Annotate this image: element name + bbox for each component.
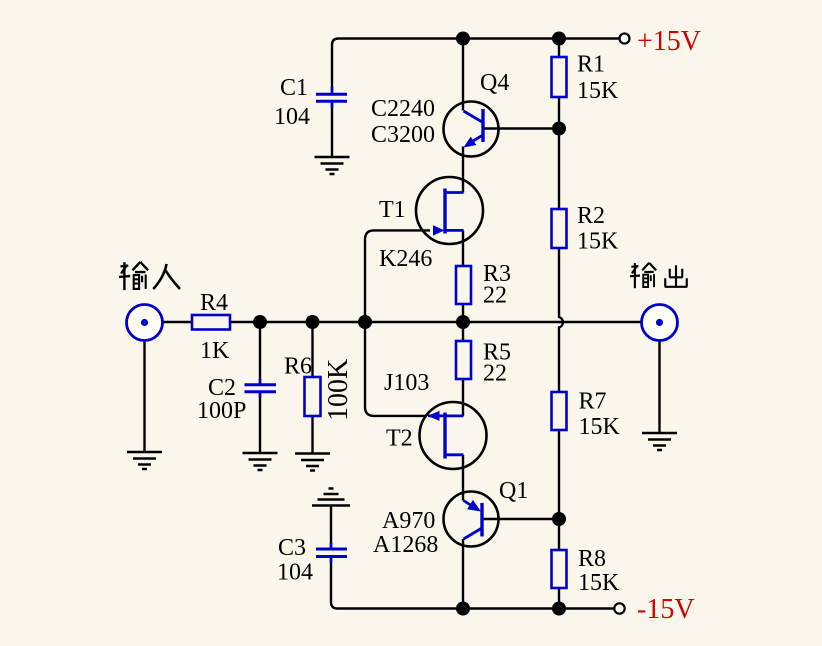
wire T1 gate riser T2 gate — [365, 230, 430, 416]
svg-text:Q4: Q4 — [480, 70, 509, 96]
resistor R7 — [552, 392, 567, 430]
svg-text:22: 22 — [483, 282, 507, 308]
wire R1 to R2 — [558, 97, 560, 209]
wire node to C2 — [259, 322, 261, 380]
svg-text:15K: 15K — [578, 570, 620, 596]
resistor R4 — [192, 315, 230, 330]
wire bottom -15V rail — [331, 563, 615, 609]
svg-text:R6: R6 — [284, 354, 312, 380]
wire T1 source to R3 — [462, 230, 464, 266]
terminal -15V — [614, 603, 624, 613]
ground input — [127, 452, 162, 469]
terminal +15V — [620, 34, 630, 44]
RESISTORS — [192, 57, 567, 588]
GROUNDS — [127, 157, 677, 506]
node Q1 base / R7 R8 — [552, 512, 566, 526]
svg-text:15K: 15K — [577, 228, 619, 254]
wire Q4 emitter to T1 drain — [462, 147, 464, 193]
svg-text:104: 104 — [274, 104, 310, 130]
wire Q1 base to node — [482, 518, 559, 520]
wire top +15V rail — [332, 39, 620, 89]
transistor Q4 circle — [444, 102, 499, 157]
wire C2 to ground — [259, 398, 261, 454]
label input (Chinese shu ru) — [119, 262, 180, 290]
svg-text:A1268: A1268 — [373, 532, 438, 558]
output jack — [642, 305, 678, 341]
resistor R8 — [552, 550, 567, 588]
svg-text:R7: R7 — [579, 388, 607, 414]
svg-text:J103: J103 — [384, 370, 429, 396]
svg-text:100K: 100K — [323, 359, 354, 421]
svg-text:C1: C1 — [280, 75, 308, 101]
wire R6 to ground — [311, 416, 313, 454]
wire node to R6 — [311, 322, 313, 377]
wire Q1 collector to bottom rail — [462, 539, 464, 609]
wire rail to R1 — [558, 39, 560, 58]
node C2 — [253, 315, 267, 329]
wire R3 to node — [462, 304, 464, 322]
svg-text:104: 104 — [277, 560, 313, 586]
transistor Q4 symbol — [464, 109, 484, 148]
wire mid rail R4 to output jack — [230, 321, 642, 323]
CAPACITORS — [245, 87, 348, 563]
capacitor C1 — [316, 94, 347, 101]
svg-text:C2240: C2240 — [371, 96, 435, 122]
svg-text:15K: 15K — [579, 414, 621, 440]
wire Q4 collector drop — [462, 39, 464, 111]
transistor T2 symbol — [428, 411, 464, 459]
svg-text:1K: 1K — [200, 338, 230, 364]
transistor Q1 circle — [444, 492, 499, 547]
wire R7 to R8 — [558, 430, 560, 550]
capacitor C2 — [245, 385, 277, 392]
ground C1 — [315, 157, 350, 174]
svg-text:C3: C3 — [278, 535, 306, 561]
svg-text:R4: R4 — [200, 290, 228, 316]
capacitor C3 — [316, 549, 347, 557]
wire R8 to bottom rail — [558, 588, 560, 609]
wire Q4 base to node — [483, 127, 559, 129]
node bottom rail / R8 — [552, 602, 566, 616]
node top rail / R1 — [552, 32, 566, 46]
svg-text:R2: R2 — [577, 203, 605, 229]
wire output jack to ground — [658, 340, 660, 434]
resistor R2 — [552, 209, 567, 248]
resistor R3 — [456, 266, 471, 304]
node gate riser — [358, 315, 372, 329]
transistor T1 symbol — [433, 189, 464, 236]
node bottom rail / Q1 — [456, 602, 470, 616]
svg-text:Q1: Q1 — [499, 478, 528, 504]
wire node to R5 — [462, 322, 464, 341]
ground R6 — [295, 454, 330, 471]
wire R2 to R7 with crossover hop — [559, 248, 563, 392]
svg-text:R8: R8 — [578, 546, 606, 572]
svg-text:K246: K246 — [379, 246, 432, 272]
wire input jack to R4 — [162, 321, 192, 323]
svg-text:+15V: +15V — [637, 26, 701, 57]
wire inverted ground to C3 — [330, 506, 332, 544]
svg-text:15K: 15K — [577, 78, 619, 104]
label output (Chinese shu chu) — [630, 263, 687, 288]
wire C1 to ground — [331, 108, 333, 158]
node top rail / Q4 — [456, 32, 470, 46]
wire T2 drain to Q1 emitter — [462, 455, 464, 501]
wire input jack to ground — [143, 340, 145, 453]
transistor Q1 symbol — [464, 500, 483, 539]
resistor R5 — [456, 341, 471, 379]
ground output — [642, 433, 677, 450]
ground C2 — [243, 453, 278, 470]
input jack — [127, 305, 163, 341]
resistor R6 — [305, 377, 321, 416]
svg-text:22: 22 — [483, 361, 507, 387]
resistor R1 — [552, 57, 567, 97]
transistor T2 circle — [420, 402, 487, 469]
wire R5 to T2 source lead — [462, 379, 464, 416]
svg-text:T1: T1 — [379, 197, 406, 223]
svg-text:T2: T2 — [386, 426, 413, 452]
svg-text:100P: 100P — [197, 398, 246, 424]
ground inverted above C3 — [312, 489, 350, 506]
svg-text:-15V: -15V — [637, 594, 695, 625]
svg-text:C3200: C3200 — [371, 122, 435, 148]
node Q4 base / R1 R2 — [552, 122, 566, 136]
node R6 — [306, 315, 320, 329]
svg-text:R1: R1 — [577, 52, 605, 78]
svg-text:A970: A970 — [382, 508, 435, 534]
svg-text:C2: C2 — [208, 375, 236, 401]
transistor T1 circle — [416, 177, 483, 244]
node R3 R5 output — [456, 315, 470, 329]
